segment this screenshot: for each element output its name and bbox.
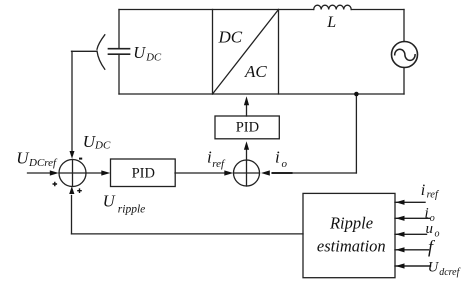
svg-text:ref: ref xyxy=(212,158,226,170)
svg-text:o: o xyxy=(435,229,440,240)
svg-text:U: U xyxy=(103,192,116,211)
sign minus S1 top-right xyxy=(79,158,82,160)
svg-text:o: o xyxy=(282,158,288,170)
wire probe to feedback xyxy=(72,50,97,52)
svg-text:i: i xyxy=(425,205,429,221)
arrowhead S1 to PID1 xyxy=(101,170,110,175)
wire i_o feedback horizontal xyxy=(291,172,356,174)
DC/AC converter diagonal xyxy=(213,10,279,95)
svg-text:ref: ref xyxy=(427,189,440,200)
wire PID1 to S2 xyxy=(175,172,225,174)
ripple input line U_dcref xyxy=(395,265,431,267)
sign plus S1 bottom-left xyxy=(53,182,58,187)
svg-text:L: L xyxy=(326,14,336,31)
wire ripple output horizontal xyxy=(72,233,304,235)
arrowhead ripple input f xyxy=(396,247,405,252)
arrowhead ripple input U_dcref xyxy=(396,263,405,268)
ripple input line u_o xyxy=(395,233,427,235)
summing junction S2 xyxy=(234,160,260,186)
svg-text:DC: DC xyxy=(94,139,111,151)
svg-text:AC: AC xyxy=(244,62,267,81)
svg-text:u: u xyxy=(426,221,434,237)
arrowhead PID2 to converter xyxy=(244,96,249,105)
arrowhead ripple input i_ref xyxy=(396,200,405,205)
summing junction S1 xyxy=(59,160,86,187)
svg-text:f: f xyxy=(428,237,436,257)
arrowhead ripple input i_o xyxy=(396,216,405,221)
wire i_o bold stub xyxy=(273,172,292,174)
ripple estimation block xyxy=(303,193,395,277)
capacitor C (DC link) xyxy=(109,49,130,55)
arrowhead i_o into S2 right xyxy=(261,170,270,175)
svg-text:i: i xyxy=(275,148,280,167)
wire right edge upper xyxy=(403,10,405,42)
svg-text:estimation: estimation xyxy=(317,237,386,256)
ripple input line i_o xyxy=(395,217,430,219)
DC/AC converter box right edge xyxy=(278,10,280,95)
arrowhead ripple into S1 bottom xyxy=(69,186,74,194)
voltage probe symbol xyxy=(97,35,105,69)
AC source circle xyxy=(392,42,418,68)
PID block current loop xyxy=(215,116,279,139)
junction dot xyxy=(354,92,359,97)
svg-text:i: i xyxy=(421,182,425,199)
svg-text:U: U xyxy=(133,43,146,62)
svg-text:DCref: DCref xyxy=(28,157,58,169)
svg-text:PID: PID xyxy=(132,166,155,182)
wire input U_DCref xyxy=(28,172,51,174)
wire top-right segment xyxy=(351,9,404,11)
wire S1 to PID1 xyxy=(86,172,103,174)
AC source sine xyxy=(395,49,415,60)
PID block U loop xyxy=(111,159,176,187)
wire U_DC feedback down xyxy=(71,51,73,152)
inductor L xyxy=(314,5,352,9)
arrowhead PID1 to S2 xyxy=(224,170,233,175)
svg-text:dcref: dcref xyxy=(439,267,460,278)
svg-text:i: i xyxy=(207,148,212,167)
arrowhead U_DCref into S1 left xyxy=(50,170,59,175)
svg-text:ripple: ripple xyxy=(118,203,145,215)
ripple input line i_ref xyxy=(395,201,425,203)
svg-text:PID: PID xyxy=(236,119,259,135)
DC/AC converter box left edge xyxy=(212,10,214,95)
wire bottom xyxy=(119,93,404,95)
wire left edge lower xyxy=(118,54,120,94)
svg-text:DC: DC xyxy=(145,51,162,63)
ripple input line f xyxy=(395,249,429,251)
svg-text:U: U xyxy=(428,259,440,275)
wire S2 up to PID2 xyxy=(246,150,248,161)
wire PID2 up to converter xyxy=(246,105,248,117)
wire top-left segment xyxy=(119,9,314,11)
arrowhead S2 to PID2 xyxy=(244,141,249,150)
svg-text:DC: DC xyxy=(218,28,243,47)
wire right edge lower xyxy=(403,68,405,95)
sign plus S1 bottom-right xyxy=(77,188,82,193)
wire ripple feedback up xyxy=(71,196,73,234)
wire left edge upper xyxy=(118,10,120,49)
wire i_o feedback vertical xyxy=(355,94,357,173)
arrowhead ripple input u_o xyxy=(396,232,405,237)
svg-text:Ripple: Ripple xyxy=(329,214,373,233)
arrowhead U_DC into S1 top xyxy=(70,151,75,159)
